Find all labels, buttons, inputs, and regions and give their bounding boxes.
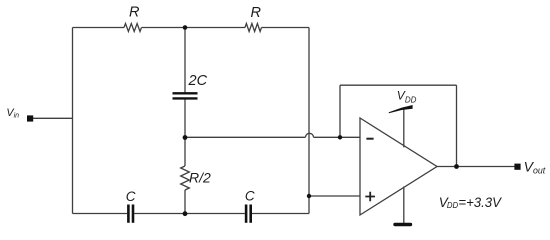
wire feedback right vertical: [456, 85, 458, 166]
wire plus input: [309, 195, 360, 197]
svg-text:VDD: VDD: [397, 88, 417, 104]
op-amp plus input symbol: [365, 192, 375, 202]
wire feedback left vertical: [339, 85, 341, 137]
wire top rail middle segment: [142, 27, 246, 29]
wire 2C upper lead: [184, 28, 186, 94]
svg-text:DD: DD: [447, 201, 459, 210]
svg-text:C: C: [126, 189, 136, 204]
op-amp U1 VDD pin: [403, 110, 405, 148]
wire hop over right vertical: [306, 133, 314, 137]
wire bottom rail middle segment: [134, 213, 245, 215]
wire top rail right segment: [262, 27, 310, 29]
terminal Vout: [514, 164, 520, 170]
op-amp U1 triangle: [360, 118, 437, 215]
svg-text:Vin: Vin: [6, 107, 19, 119]
node middle 2C junction: [183, 135, 188, 140]
wire top rail left segment: [73, 27, 125, 29]
svg-text:R: R: [129, 5, 140, 21]
resistor R2: [245, 24, 262, 32]
wire bottom rail right segment: [252, 213, 309, 215]
wire Vin stub: [33, 117, 73, 119]
wire middle line left of hop: [185, 136, 306, 138]
resistor R3 R/2: [181, 166, 190, 190]
svg-text:R/2: R/2: [189, 170, 211, 186]
svg-text:=+3.3V: =+3.3V: [458, 195, 502, 210]
svg-text:2C: 2C: [188, 73, 208, 89]
resistor R1: [124, 24, 142, 32]
wire left vertical: [72, 28, 74, 214]
node plus input junction: [307, 194, 311, 198]
wire 2C lower lead: [184, 99, 186, 137]
ground symbol: [395, 223, 411, 226]
node bottom middle junction: [183, 211, 188, 216]
wire right vertical (top rail down to bottom rail): [308, 28, 310, 214]
wire feedback top horizontal: [340, 84, 457, 86]
node top middle junction: [183, 25, 188, 30]
svg-text:R: R: [251, 5, 262, 21]
op-amp U1 VSS pin: [403, 187, 405, 224]
wire middle line right of hop to op-amp minus input: [314, 136, 361, 138]
wire R/2 lower lead: [184, 190, 186, 214]
wire R/2 upper lead: [184, 137, 186, 166]
svg-text:Vout: Vout: [524, 159, 546, 176]
op-amp minus input symbol: [366, 138, 373, 140]
power VDD arrow: [389, 105, 413, 113]
svg-text:C: C: [245, 189, 255, 204]
node feedback tap junction: [338, 135, 342, 139]
terminal Vin: [27, 115, 33, 121]
node output junction: [454, 164, 459, 169]
capacitor C1 2C plates: [173, 93, 198, 98]
capacitor C3 plates: [246, 205, 251, 223]
wire output: [437, 166, 515, 168]
wire bottom rail left segment: [73, 213, 128, 215]
capacitor C2 plates: [128, 205, 133, 223]
